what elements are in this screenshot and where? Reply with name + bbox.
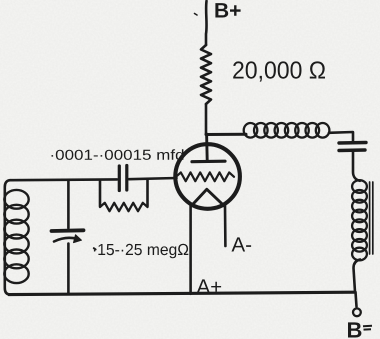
inductor L3 secondary coil vertical xyxy=(352,180,367,260)
wire frame left bottom corner xyxy=(5,180,10,294)
wire plate lead xyxy=(205,134,208,160)
node B+ terminal tick xyxy=(195,14,198,16)
label B- dash xyxy=(363,326,372,330)
tube V1 plate xyxy=(192,160,225,164)
resistor R1 20,000 ohm xyxy=(201,45,211,104)
tube V1 envelope xyxy=(175,144,240,209)
wire grid leak right leg xyxy=(146,180,149,206)
node B- terminal circle xyxy=(353,308,361,316)
tube V1 filament xyxy=(191,189,224,206)
wire coil to capacitor xyxy=(329,132,353,141)
label A- xyxy=(232,237,252,251)
resistor R2 grid leak xyxy=(100,203,148,211)
wire tuning branch upper xyxy=(67,180,70,228)
wire condenser to grid xyxy=(129,178,177,179)
tube V1 grid zigzag xyxy=(176,172,234,181)
core lines of L3 xyxy=(369,182,371,254)
wire filament right leg to A- xyxy=(224,206,227,247)
label A+ xyxy=(197,279,222,293)
wire coil bottom to B- junction xyxy=(354,260,361,293)
label B- xyxy=(348,322,361,337)
wire top grid bus xyxy=(10,178,117,181)
speck xyxy=(94,248,96,249)
label B+ xyxy=(215,3,240,17)
wire tuning branch lower xyxy=(67,244,70,294)
wire B+ lead xyxy=(205,1,208,45)
wire junction to terminal xyxy=(356,292,357,307)
wire bottom A+ bus xyxy=(9,292,355,294)
wire capacitor to secondary coil xyxy=(353,151,360,181)
inductor L1 antenna coil xyxy=(4,190,28,283)
capacitor C3 blocking xyxy=(339,141,366,145)
capacitor C1 variable tuning plate xyxy=(52,228,84,232)
wire grid leak left leg xyxy=(99,181,102,206)
label 20,000 ohm xyxy=(233,61,325,81)
wire resistor to plate junction xyxy=(205,104,208,134)
inductor L2 tickler coil horizontal xyxy=(244,123,330,138)
label .0001-.00015 mfd xyxy=(52,149,184,160)
wire filament left leg to A+ bus xyxy=(189,206,192,294)
capacitor C2 grid condenser xyxy=(118,166,121,191)
label .15-.25 megohm xyxy=(94,244,188,258)
capacitor C1 rotor arrow xyxy=(54,238,78,242)
wire junction to plate coil xyxy=(206,133,246,136)
